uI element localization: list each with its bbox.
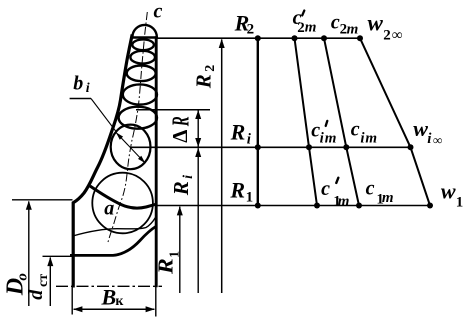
svg-text:w: w bbox=[368, 10, 384, 35]
svg-text:∞: ∞ bbox=[433, 133, 442, 148]
svg-text:a: a bbox=[104, 198, 114, 220]
svg-text:c: c bbox=[154, 1, 163, 23]
svg-text:R: R bbox=[154, 258, 178, 275]
svg-text:R: R bbox=[169, 181, 193, 196]
svg-text:m: m bbox=[347, 21, 359, 37]
svg-text:2: 2 bbox=[297, 20, 305, 36]
svg-text:1: 1 bbox=[456, 194, 464, 210]
svg-text:m: m bbox=[382, 190, 394, 206]
svg-text:R: R bbox=[168, 116, 194, 127]
svg-text:i: i bbox=[181, 175, 196, 179]
svg-text:w: w bbox=[413, 116, 428, 141]
svg-text:R: R bbox=[191, 74, 215, 89]
svg-text:m: m bbox=[365, 130, 377, 146]
svg-text:m: m bbox=[325, 130, 337, 146]
svg-text:c: c bbox=[331, 11, 340, 33]
svg-text:c: c bbox=[321, 178, 330, 200]
svg-text:R: R bbox=[229, 177, 245, 202]
svg-text:i: i bbox=[86, 81, 90, 96]
svg-text:Δ: Δ bbox=[168, 130, 192, 143]
svg-text:o: o bbox=[14, 273, 30, 281]
svg-text:m: m bbox=[305, 19, 317, 35]
svg-text:w: w bbox=[441, 179, 456, 204]
svg-text:R: R bbox=[230, 120, 246, 145]
svg-text:2: 2 bbox=[383, 28, 391, 44]
svg-text:B: B bbox=[101, 284, 117, 309]
svg-text:2: 2 bbox=[203, 65, 218, 72]
svg-text:ст: ст bbox=[36, 274, 51, 287]
svg-text:1: 1 bbox=[246, 190, 254, 206]
svg-text:1: 1 bbox=[167, 251, 182, 258]
svg-text:b: b bbox=[73, 72, 83, 94]
svg-text:m: m bbox=[338, 193, 350, 209]
svg-text:∞: ∞ bbox=[392, 28, 403, 44]
svg-text:d: d bbox=[25, 289, 47, 300]
svg-text:к: к bbox=[115, 294, 124, 309]
svg-text:2: 2 bbox=[247, 22, 255, 38]
svg-text:c: c bbox=[351, 118, 360, 140]
svg-text:c: c bbox=[366, 177, 375, 199]
